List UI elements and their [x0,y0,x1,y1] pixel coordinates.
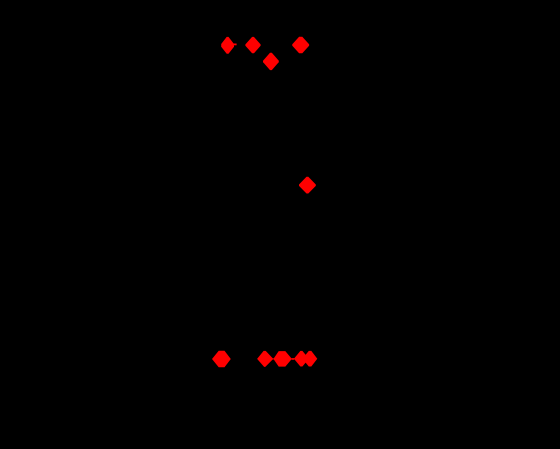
wire stub (short red wire segment between N8 and N9) [292,358,295,360]
node N3 (open wire-end marker, offset lower) [263,53,279,70]
node N8 (pair of merged open wire-end markers, bottom) [273,351,292,367]
node N1 (open wire-end marker, top-left) [221,37,234,54]
node N6 (pair of merged open wire-end markers, bottom-left) [212,351,231,368]
node N5 (open wire-end marker, middle) [299,177,316,194]
pin stub of node N1 (small red tab at right of marker) [232,44,236,46]
node N2 (open wire-end marker) [245,37,260,53]
wire junction (tips of N7 and N8 touching) [272,358,274,359]
node N9 (open wire-end marker, bottom) [294,351,309,367]
node N4 (open wire-end marker, top-right) [292,37,309,53]
node N10 (open wire-end marker, bottom-right, overlapping N9) [302,351,317,367]
node N7 (open wire-end marker, bottom) [257,351,273,367]
